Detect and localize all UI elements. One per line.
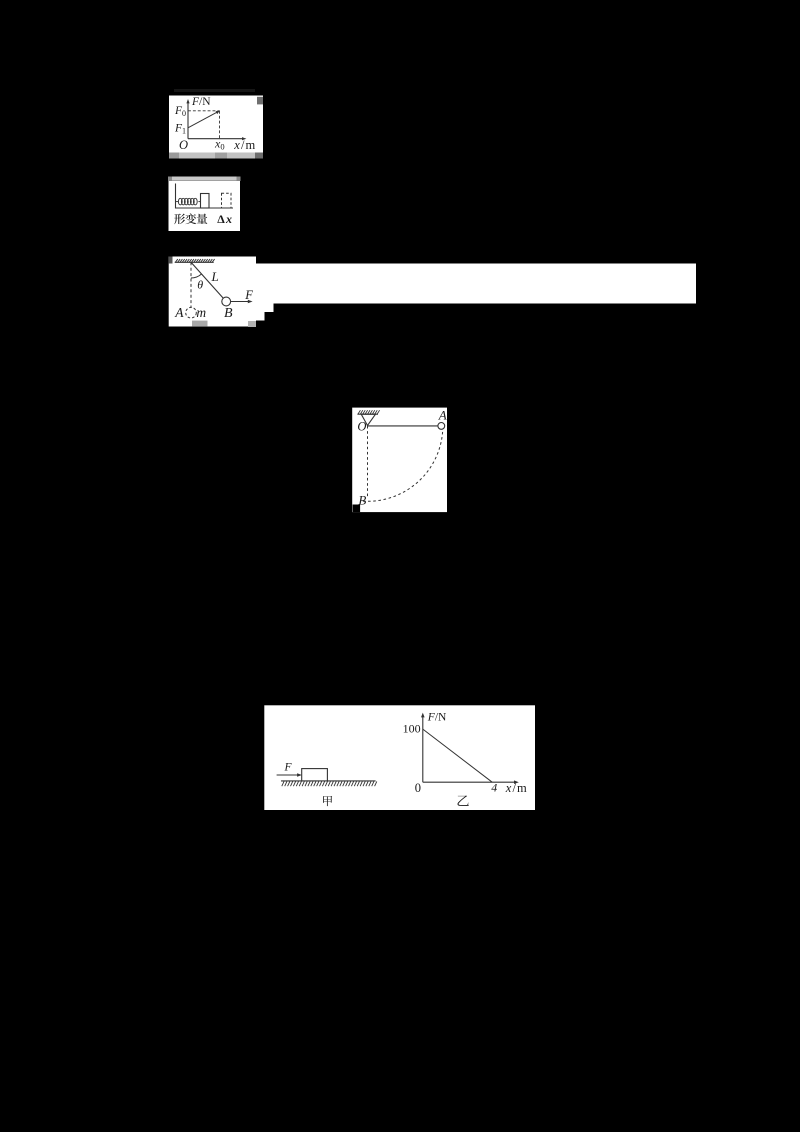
svg-text:Δ: Δ [217, 212, 225, 226]
pendulum angle arc theta [191, 274, 202, 278]
svg-text:F/N: F/N [427, 712, 447, 724]
arc pivot triangle [361, 414, 375, 425]
panel5 ground line [281, 780, 376, 782]
spring wall line [175, 184, 177, 209]
svg-text:4: 4 [491, 781, 497, 795]
svg-text:O: O [179, 138, 188, 152]
panel5 background [264, 705, 535, 810]
svg-text:F/N: F/N [191, 96, 211, 108]
spring coil [176, 198, 201, 205]
svg-text:0: 0 [415, 781, 421, 795]
panel5 force F arrow [277, 773, 302, 777]
panel5 block on ground [302, 769, 328, 781]
caption 形变量Δx [174, 212, 232, 226]
svg-text:x/m: x/m [505, 781, 528, 795]
graph2 x-axis [423, 780, 519, 784]
pendulum force F arrow [231, 300, 253, 304]
arc pivot ceiling line [357, 413, 378, 415]
pendulum rod L [191, 262, 223, 298]
pendulum dashed vertical reference [190, 262, 192, 307]
arc dashed vertical from O [367, 426, 369, 497]
arc scan artifact black block [353, 505, 361, 513]
svg-text:A: A [174, 305, 184, 320]
graph1 sloped F(x) line with arrow tip [188, 111, 220, 128]
panel5 caption 乙 [457, 795, 468, 806]
svg-text:B: B [224, 306, 233, 321]
graph1 scan artifact bottom gray strip [169, 153, 263, 159]
svg-text:F: F [244, 288, 253, 302]
pendulum ball A dashed circle [186, 307, 197, 318]
svg-text:F: F [284, 762, 293, 774]
svg-text:m: m [196, 305, 206, 320]
pendulum ceiling line [175, 261, 214, 263]
svg-text:x/m: x/m [233, 138, 256, 152]
svg-text:L: L [211, 269, 219, 284]
graph1 panel background [169, 96, 263, 153]
arc dashed quarter-circle trajectory A to B [361, 432, 443, 501]
pendulum ball B (solid circle) [222, 297, 231, 306]
spring ground line [175, 207, 233, 209]
graph1 dashed vertical x0 level [219, 111, 221, 139]
pendulum panel background (stepped white region) [169, 257, 696, 327]
graph1 scan artifact top-right gray block [257, 97, 263, 105]
spring panel background [169, 181, 241, 231]
arc panel background [352, 408, 447, 512]
spring dashed ghost block [222, 193, 232, 208]
graph1 faint scan shadow above panel [174, 89, 255, 92]
svg-text:100: 100 [403, 722, 421, 736]
panel5 caption 甲 [323, 796, 332, 806]
arc horizontal rod O-A [368, 425, 438, 427]
spring solid block [201, 194, 210, 209]
pendulum scan artifact gray blocks bottom [192, 321, 256, 327]
graph2 y-axis [421, 713, 425, 783]
graph1 dashed horizontal F0 level [188, 110, 220, 112]
arc ball A [438, 423, 445, 430]
svg-text:O: O [357, 419, 366, 433]
svg-text:x: x [225, 212, 232, 226]
pendulum scan artifact dark top-left corner [169, 257, 173, 264]
panel5 ground hatching [282, 781, 377, 786]
arc pivot hatching [358, 410, 380, 414]
svg-text:A: A [438, 407, 447, 422]
graph2 descending line 100 to 4 [423, 729, 492, 782]
svg-text:θ: θ [197, 278, 203, 292]
spring panel scan artifact top gray strip [168, 177, 241, 181]
pendulum ceiling hatching [175, 259, 214, 262]
graph1 x-axis [188, 137, 246, 140]
graph1 y-axis [186, 99, 189, 139]
